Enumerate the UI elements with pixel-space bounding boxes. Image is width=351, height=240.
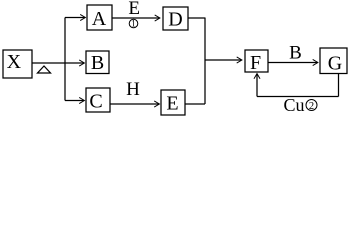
svg-text:B: B bbox=[289, 43, 302, 64]
svg-text:A: A bbox=[92, 8, 107, 30]
svg-text:2: 2 bbox=[309, 101, 314, 112]
svg-text:C: C bbox=[89, 91, 102, 113]
svg-text:1: 1 bbox=[131, 19, 136, 29]
svg-text:E: E bbox=[166, 93, 178, 115]
svg-text:B: B bbox=[91, 52, 104, 74]
svg-text:Cu: Cu bbox=[283, 95, 304, 115]
svg-text:D: D bbox=[168, 9, 182, 31]
svg-text:F: F bbox=[250, 52, 261, 74]
svg-text:E: E bbox=[128, 0, 140, 19]
svg-text:X: X bbox=[7, 51, 22, 73]
svg-text:G: G bbox=[328, 53, 342, 75]
svg-text:H: H bbox=[126, 79, 140, 100]
